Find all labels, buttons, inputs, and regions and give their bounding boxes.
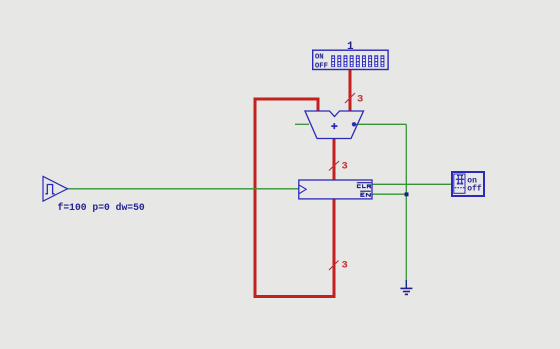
register clock pin triangle — [299, 185, 306, 193]
pulse waveform glyph — [45, 185, 54, 194]
adder carry-out pin dot — [352, 122, 356, 126]
switch icon dashed line — [455, 187, 465, 189]
svg-text:ON: ON — [315, 54, 324, 62]
svg-text:3: 3 — [342, 260, 348, 272]
svg-text:1: 1 — [347, 41, 354, 53]
svg-text:OFF: OFF — [315, 62, 328, 70]
svg-text:off: off — [467, 185, 482, 194]
bus width slash on DIP bus — [345, 93, 355, 103]
bus wire: DIP switch to adder input A — [349, 70, 352, 112]
bus wire: adder output to register input — [333, 139, 336, 181]
switch icon crossbar — [456, 178, 464, 180]
svg-text:3: 3 — [357, 94, 363, 106]
dip switch SW1 — [313, 50, 388, 69]
wire: adder carry-out to vertical net — [355, 123, 406, 125]
on/off switch S1 — [452, 172, 484, 196]
ground symbol — [400, 280, 412, 294]
bus wire: feedback loop register output to adder input B — [255, 99, 334, 297]
bus width slash on adder output bus — [329, 161, 339, 171]
wire: adder carry-in stub — [295, 123, 309, 125]
wire: register CLR to on/off switch — [372, 183, 451, 185]
switch icon box — [454, 174, 465, 193]
svg-text:f=100 p=0 dw=50: f=100 p=0 dw=50 — [58, 202, 145, 213]
wire: vertical net down to ground — [405, 124, 407, 281]
register pin label CLR (active low) — [357, 184, 370, 188]
wire: register EN to junction — [372, 193, 406, 195]
svg-text:3: 3 — [342, 161, 348, 173]
pulse source V1 — [43, 176, 68, 201]
adder plus symbol — [331, 123, 337, 129]
switch icon posts — [457, 175, 463, 179]
wire: pulse source to register clock — [68, 188, 299, 190]
bus width slash on feedback bus — [329, 261, 339, 271]
adder U1 — [305, 111, 364, 139]
register U2 — [299, 180, 372, 199]
register pin label EN (active low) — [361, 193, 370, 197]
junction on EN net — [405, 192, 409, 196]
